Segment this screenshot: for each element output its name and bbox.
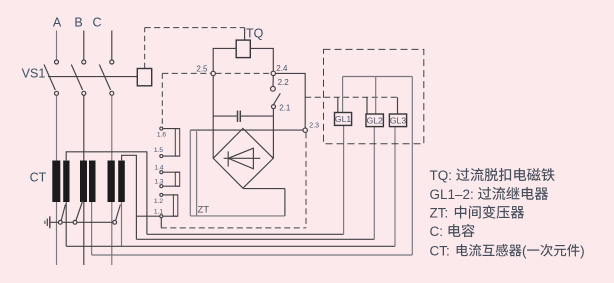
svg-text:GL1: GL1 [335, 114, 351, 124]
svg-text:A: A [53, 16, 62, 30]
svg-text:(: ( [522, 243, 527, 258]
svg-text:GL2: GL2 [367, 115, 383, 125]
svg-text:2.2: 2.2 [278, 78, 290, 87]
svg-text:TQ: TQ [246, 27, 264, 41]
svg-text:2.3: 2.3 [309, 123, 319, 130]
svg-text:CT: CT [30, 171, 47, 185]
svg-text:VS1: VS1 [22, 67, 46, 81]
svg-text:1.3: 1.3 [154, 178, 163, 185]
svg-text:ZT:: ZT: [430, 205, 449, 220]
svg-text:1.5: 1.5 [154, 147, 163, 154]
svg-text:): ) [580, 243, 585, 258]
svg-text:B: B [74, 16, 82, 30]
svg-text:TQ:: TQ: [430, 168, 453, 183]
svg-text:2.1: 2.1 [279, 103, 291, 112]
svg-text:1.2: 1.2 [154, 198, 163, 205]
svg-text:2.5: 2.5 [196, 65, 208, 74]
svg-text:1.1: 1.1 [154, 208, 163, 215]
svg-text:C:: C: [430, 224, 444, 239]
svg-text:GL1–2:: GL1–2: [430, 187, 474, 202]
svg-text:C: C [92, 16, 101, 30]
svg-text:GL3: GL3 [390, 115, 406, 125]
svg-text:ZT: ZT [198, 205, 210, 216]
svg-text:2.4: 2.4 [276, 64, 288, 73]
svg-text:1.6: 1.6 [157, 132, 166, 139]
svg-text:1.4: 1.4 [154, 164, 163, 171]
svg-text:CT:: CT: [430, 243, 450, 258]
